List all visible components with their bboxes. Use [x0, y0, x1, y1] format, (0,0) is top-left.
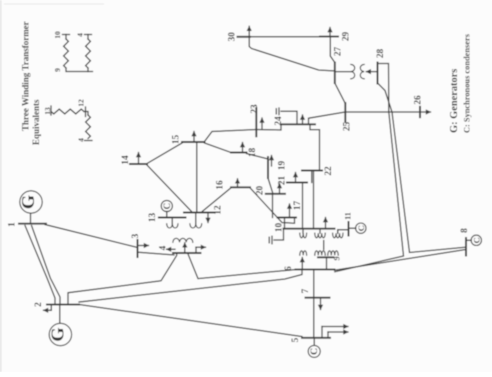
- bus 13 bar: [159, 217, 186, 219]
- capacitor bus 10 wire: [274, 229, 284, 240]
- load arrow bus 21: [295, 173, 297, 182]
- wire 27 to transformer: [335, 71, 351, 73]
- svg-text:20: 20: [256, 186, 266, 196]
- svg-text:Equivalents: Equivalents: [31, 99, 41, 145]
- wire G to bus 2: [59, 305, 61, 324]
- svg-text:22: 22: [324, 166, 334, 176]
- capacitor bus 10 plates: [271, 236, 273, 244]
- line 4-6: [188, 254, 296, 279]
- load arrow bus 20: [279, 184, 281, 194]
- load arrow bus 24: [302, 115, 304, 124]
- bus 12 bar: [184, 212, 215, 214]
- transformer 27-28 winding a: [351, 64, 355, 78]
- svg-text:13: 13: [148, 213, 158, 223]
- bus 9 bar: [318, 256, 334, 258]
- line 29-30: [250, 36, 320, 38]
- load arrow bus 26: [420, 111, 431, 113]
- scan edge left: [0, 0, 2, 372]
- transformer 9-11 winding a: [333, 230, 343, 238]
- svg-text:5: 5: [291, 337, 301, 342]
- generator G bus 2: [49, 323, 71, 345]
- line 12-15: [196, 142, 198, 213]
- svg-text:28: 28: [376, 49, 386, 59]
- svg-text:2: 2: [34, 302, 44, 307]
- svg-text:14: 14: [121, 155, 131, 165]
- svg-text:C: C: [309, 348, 320, 355]
- svg-text:G: G: [18, 195, 38, 209]
- bus 11 bar: [348, 222, 350, 236]
- line 25-27: [335, 83, 346, 104]
- line 5-7: [313, 298, 315, 338]
- bus 1 bar: [19, 223, 46, 225]
- line 16-17: [250, 188, 295, 223]
- bus 26 bar: [419, 107, 421, 117]
- svg-text:3: 3: [131, 233, 141, 238]
- line 6-8: [335, 250, 466, 271]
- bus 17 bar: [278, 217, 297, 219]
- load arrow bus 3: [139, 245, 149, 247]
- eqA terminal tick 10: [63, 34, 70, 36]
- eqA terminal tick 4: [85, 34, 92, 36]
- svg-text:8: 8: [460, 228, 470, 233]
- svg-text:26: 26: [414, 95, 424, 105]
- svg-text:23: 23: [250, 104, 260, 114]
- capacitor bus 24 plates: [278, 108, 280, 115]
- line 12-16: [201, 188, 231, 213]
- svg-text:12: 12: [214, 205, 224, 215]
- bus 5 bar: [302, 337, 330, 339]
- wire C to bus 13: [166, 212, 168, 218]
- line 23-24: [256, 124, 281, 130]
- svg-text:9: 9: [333, 256, 342, 260]
- wire C to bus 11: [349, 227, 356, 229]
- svg-text:G: Generators: G: Generators: [449, 69, 460, 133]
- svg-text:15: 15: [172, 135, 182, 145]
- condenser C bus 5: [308, 345, 320, 357]
- load arrows bus 5: [322, 327, 348, 338]
- line 21-22: [311, 171, 313, 183]
- bus 21 bar: [287, 182, 307, 184]
- svg-text:25: 25: [343, 122, 353, 132]
- svg-text:1: 1: [8, 222, 18, 227]
- transformer 6-10 winding a: [300, 229, 307, 238]
- load arrow bus 30: [248, 26, 250, 37]
- bus 10 bar: [284, 228, 335, 230]
- bus 2 bar: [47, 304, 79, 306]
- line 2-4: [68, 253, 177, 305]
- svg-text:Three Winding Transformer: Three Winding Transformer: [21, 21, 31, 131]
- bus 8 bar: [465, 238, 467, 256]
- line 18-19: [247, 154, 269, 160]
- load arrow bus 7: [320, 298, 322, 310]
- load arrow bus 2: [44, 305, 52, 311]
- bus 7 bar: [306, 297, 330, 299]
- bus 29 bar: [320, 36, 338, 38]
- line 15-18: [205, 143, 232, 153]
- transformer 6-10 tap arrow: [301, 258, 303, 270]
- line 10-20: [272, 194, 274, 218]
- svg-text:6: 6: [284, 266, 294, 271]
- load arrow bus 18: [242, 143, 244, 152]
- transformer 27-28 tap arrow: [366, 71, 377, 73]
- svg-text:27: 27: [334, 47, 344, 57]
- svg-text:30: 30: [228, 32, 238, 42]
- load arrow bus 23: [261, 118, 263, 129]
- svg-text:C: C: [356, 225, 366, 231]
- eqB resistor 12-13: [51, 109, 84, 114]
- load arrow bus 12: [207, 214, 209, 223]
- transformer 6-10 winding b: [300, 251, 307, 255]
- bus 20 bar: [266, 193, 285, 195]
- wire C to bus 8: [466, 239, 471, 241]
- transformer 4-12 winding (12 side): [190, 213, 202, 229]
- scan edge top: [4, 4, 104, 5]
- line 25-26: [345, 111, 420, 113]
- svg-text:7: 7: [301, 288, 311, 293]
- svg-text:17: 17: [293, 201, 303, 211]
- line 1-2 circuit a: [25, 226, 55, 305]
- transformer 4-12 tap arrow: [184, 243, 186, 253]
- line 22-24: [310, 124, 320, 170]
- svg-text:C: Synchronous condensers: C: Synchronous condensers: [463, 33, 472, 133]
- line 15-23: [205, 130, 257, 142]
- svg-text:10: 10: [53, 31, 62, 39]
- condenser C bus 11: [356, 223, 366, 233]
- svg-text:9: 9: [53, 68, 62, 72]
- svg-text:16: 16: [216, 180, 226, 190]
- bus 23 bar: [255, 108, 257, 136]
- bus 4 bar: [173, 252, 201, 254]
- eqA common wire node 9: [66, 68, 93, 72]
- transformer 9-10 winding b: [315, 251, 325, 255]
- bus 28 bar: [377, 63, 379, 84]
- bus 24 bar: [281, 123, 315, 125]
- bus 27 bar: [334, 63, 336, 84]
- bus 16 bar: [231, 186, 250, 188]
- bus 6 bar: [296, 268, 335, 270]
- line 12-14: [147, 165, 192, 212]
- transformer 9-10 winding a: [315, 229, 325, 238]
- line 1-3: [45, 225, 138, 248]
- eqA resistor 9-4: [86, 35, 91, 69]
- wire 6-9: [326, 257, 328, 269]
- svg-text:C: C: [162, 203, 172, 210]
- wire C to bus 5: [313, 338, 315, 346]
- transformer 4-12 winding (4 side): [173, 238, 193, 242]
- line 19-20: [268, 178, 273, 194]
- line 6-7: [313, 269, 315, 297]
- eqB terminal tick 13: [50, 106, 52, 115]
- bus 3 bar: [137, 240, 139, 257]
- svg-text:19: 19: [278, 161, 288, 171]
- line 24-25: [309, 112, 346, 124]
- line 14-15: [147, 143, 182, 164]
- bus 22 bar: [302, 170, 322, 172]
- svg-text:4: 4: [77, 138, 86, 142]
- transformer 12-13 winding (13 side): [167, 218, 178, 229]
- bus 18 bar: [231, 152, 247, 154]
- load arrow bus 10: [325, 218, 327, 229]
- condenser C bus 13: [161, 200, 172, 211]
- capacitor bus 24 wire: [281, 111, 297, 124]
- svg-text:4: 4: [76, 33, 85, 37]
- svg-text:12: 12: [77, 99, 86, 107]
- line 27-29: [330, 37, 335, 63]
- load arrow bus 17: [289, 204, 291, 217]
- load arrow bus 14: [138, 153, 140, 164]
- condenser C bus 8: [471, 235, 481, 245]
- eqB terminal tick 12: [85, 107, 87, 117]
- load arrow bus 4 right: [196, 247, 206, 253]
- line 8-28: [378, 83, 466, 253]
- svg-text:29: 29: [342, 32, 352, 42]
- line 10-17: [284, 218, 286, 229]
- line 10-21: [302, 183, 304, 229]
- generator G bus 1: [20, 191, 42, 213]
- svg-text:C: C: [471, 237, 481, 243]
- transformer 9-11 winding b: [328, 251, 338, 255]
- wire 9-10: [323, 241, 325, 250]
- eqA resistor 9-10: [64, 35, 69, 69]
- bus 25 bar: [344, 103, 346, 122]
- eqB terminal tick 4: [85, 140, 93, 142]
- load arrow bus 15: [193, 132, 195, 142]
- svg-text:13: 13: [43, 107, 52, 115]
- load arrow bus 16: [237, 179, 239, 187]
- line 6-28: [335, 64, 404, 272]
- line 1-2 circuit b: [32, 226, 61, 305]
- svg-text:11: 11: [344, 212, 353, 220]
- load arrow bus 29: [329, 28, 331, 37]
- bus 30 bar: [238, 36, 251, 38]
- transformer 27-28 winding b: [360, 64, 364, 78]
- bus 14 bar: [130, 163, 147, 165]
- line 10-22: [313, 171, 315, 229]
- load arrow bus 19: [271, 156, 273, 167]
- line 2-5: [79, 305, 302, 337]
- wire G to bus 1: [30, 213, 32, 224]
- eqB resistor 12-4: [86, 115, 91, 139]
- svg-text:24: 24: [274, 116, 284, 126]
- wire 9-11 to bus 11: [338, 230, 349, 233]
- svg-text:G: G: [47, 327, 67, 341]
- bus 15 bar: [182, 141, 205, 143]
- line 3-4: [139, 252, 175, 255]
- eqB corner wire: [84, 112, 88, 116]
- bus 19 bar: [267, 157, 269, 178]
- load arrow bus 4: [167, 248, 176, 250]
- line 2-6: [79, 270, 302, 302]
- line 27-30: [249, 37, 335, 71]
